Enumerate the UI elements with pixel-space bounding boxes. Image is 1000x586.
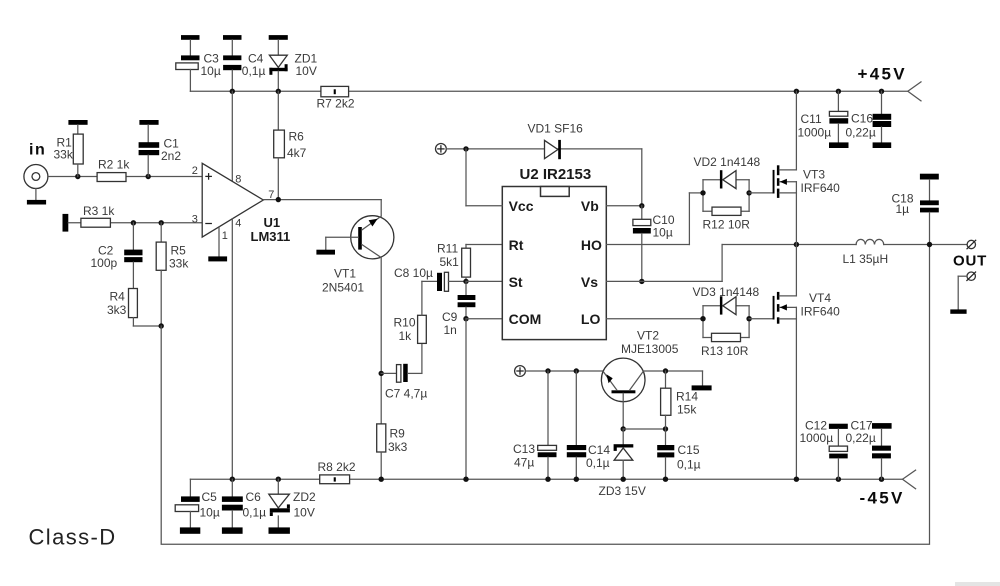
wire +10V/+45V top bus (190, 90, 907, 92)
svg-text:IRF640: IRF640 (801, 305, 841, 319)
wire VT4 gate lead (749, 318, 773, 320)
input jack IN (24, 165, 48, 205)
svg-text:VT3: VT3 (803, 168, 825, 182)
svg-text:5k1: 5k1 (440, 255, 460, 269)
svg-text:C15: C15 (678, 443, 700, 457)
wire op-amp pin 4 down (231, 219, 233, 480)
capacitor C9 1n (442, 281, 475, 337)
svg-text:Class-D: Class-D (29, 525, 117, 550)
node VT3 drain on +45V rail (794, 89, 799, 94)
svg-text:3: 3 (192, 213, 198, 225)
wire VT3 gate lead (749, 192, 773, 194)
svg-text:VD2 1n4148: VD2 1n4148 (694, 155, 761, 169)
pin label Vcc (509, 198, 534, 214)
wire Vs pin to switch node (606, 245, 722, 282)
svg-text:R3 1k: R3 1k (83, 204, 115, 218)
node C1 junction (146, 174, 151, 179)
node C18-OUT junction (927, 242, 932, 247)
node C17 on -45V rail (879, 477, 884, 482)
wire COM pin (466, 318, 502, 320)
wire V+ to VT2 emitter (525, 370, 603, 372)
pin number 1 (222, 230, 228, 242)
wire Vcc riser (466, 149, 502, 206)
svg-text:0,1µ: 0,1µ (242, 64, 266, 78)
wire op-amp output pin 7 (263, 200, 381, 216)
svg-text:R13 10R: R13 10R (701, 344, 749, 358)
diode VD1 SF16 (528, 122, 584, 160)
svg-text:10µ: 10µ (200, 506, 220, 520)
svg-text:C11: C11 (801, 112, 822, 126)
wire HO pin (606, 193, 703, 245)
ground at OUT return (950, 309, 966, 313)
node R1 junction (75, 174, 80, 179)
node ZD2 on -45V rail (276, 477, 281, 482)
node COM line on -45V rail (463, 477, 468, 482)
capacitor C17 0,22µ (846, 419, 892, 480)
wire -45V bottom rail (190, 478, 902, 480)
transistor VT3 IRF640 (773, 91, 841, 244)
node C11 on +45V rail (836, 89, 841, 94)
svg-text:10µ: 10µ (201, 64, 221, 78)
terminal V+ low side (515, 366, 526, 377)
pin number 8 (235, 174, 241, 186)
resistor R10 1k (394, 281, 438, 343)
svg-text:10V: 10V (296, 64, 317, 78)
svg-text:10V: 10V (294, 506, 315, 520)
wire switch node to L1 (722, 244, 856, 246)
node VD2 right junction (746, 190, 751, 195)
svg-text:10µ: 10µ (653, 226, 673, 240)
node R14 bottom junction (663, 426, 668, 431)
node C13 on -45V rail (545, 477, 550, 482)
node Vcc riser junction (463, 146, 468, 151)
capacitor C4 (223, 35, 265, 91)
svg-text:ZD2: ZD2 (293, 490, 316, 504)
svg-text:4: 4 (235, 218, 241, 230)
svg-text:33k: 33k (169, 257, 189, 271)
wire VT1 collector down (380, 257, 382, 424)
node C2 junction (131, 220, 136, 225)
ground at VT1 base (316, 250, 335, 255)
svg-text:C7 4,7µ: C7 4,7µ (385, 387, 427, 401)
svg-text:R7 2k2: R7 2k2 (317, 97, 355, 111)
svg-text:ZD3 15V: ZD3 15V (599, 484, 646, 498)
svg-text:VD3 1n4148: VD3 1n4148 (693, 285, 760, 299)
node VD3 left junction (700, 316, 705, 321)
svg-text:C13: C13 (513, 442, 535, 456)
svg-text:1µ: 1µ (896, 202, 910, 216)
node R4-R5 feedback junction (159, 323, 164, 328)
capacitor C7 4,7µ (381, 343, 427, 400)
svg-text:IRF640: IRF640 (801, 181, 841, 195)
resistor R3 1k (81, 204, 115, 227)
svg-text:0,1µ: 0,1µ (243, 506, 267, 520)
node C14 on -45V rail (574, 477, 579, 482)
op-amp U1 LM311 triangle (202, 163, 263, 237)
svg-text:R5: R5 (171, 244, 187, 258)
svg-text:R14: R14 (676, 390, 698, 404)
node R6-output junction (276, 197, 281, 202)
svg-text:8: 8 (235, 174, 241, 186)
pin label Vb (581, 198, 599, 214)
inductor L1 35µH (843, 239, 889, 266)
resistor R12 10R (703, 207, 751, 231)
svg-text:R4: R4 (110, 290, 126, 304)
node R9 on -45V rail (379, 477, 384, 482)
node C13 junction (545, 368, 550, 373)
resistor R14 15k (661, 371, 699, 429)
scan artifact bar bottom right (955, 582, 1000, 586)
terminal V+ supply (436, 144, 447, 155)
capacitor C6 0,1µ (222, 479, 266, 534)
svg-text:3k3: 3k3 (388, 440, 408, 454)
wire COM to negative rail (465, 319, 467, 480)
svg-text:LM311: LM311 (251, 229, 291, 244)
svg-text:VT2: VT2 (637, 329, 659, 343)
svg-text:COM: COM (509, 311, 542, 327)
pin label LO (581, 311, 601, 327)
resistor R1 33k (54, 120, 88, 177)
svg-text:1k: 1k (399, 329, 413, 343)
svg-text:0,22µ: 0,22µ (846, 125, 876, 139)
svg-text:VT4: VT4 (809, 291, 831, 305)
resistor R6 4k7 (274, 91, 307, 199)
svg-text:U1: U1 (264, 215, 281, 230)
label OUT (953, 253, 987, 270)
node C15 on -45V rail (663, 477, 668, 482)
IC U2 IR2153 body (502, 187, 606, 340)
wire L1 to OUT terminal (884, 244, 967, 246)
node -45V rail connector (903, 470, 916, 489)
svg-text:2: 2 (192, 165, 198, 177)
capacitor C13 47µ (513, 371, 557, 479)
pin number 4 (235, 218, 241, 230)
node R14 top junction (663, 368, 668, 373)
plus input mark (206, 174, 211, 179)
diode VD2 1n4148 (694, 155, 761, 189)
svg-text:R10: R10 (394, 316, 416, 330)
svg-text:15k: 15k (677, 403, 697, 417)
node R5 junction (159, 220, 164, 225)
svg-text:C16: C16 (851, 112, 873, 126)
capacitor C18 1µ (892, 174, 939, 245)
svg-text:Rt: Rt (509, 237, 524, 253)
label +45V (858, 65, 907, 84)
resistor R13 10R (701, 333, 749, 358)
svg-text:0,1µ: 0,1µ (586, 456, 610, 470)
node +45V rail connector (908, 82, 921, 101)
svg-text:33k: 33k (54, 148, 74, 162)
capacitor C11 1000µ (798, 91, 849, 148)
pin label St (509, 274, 523, 290)
label in (29, 142, 46, 159)
node C14 junction (574, 368, 579, 373)
wire inverting input (pin 3) (68, 222, 202, 224)
zener diode ZD3 15V (599, 429, 646, 498)
pin number 7 (268, 189, 274, 201)
wire LO pin (606, 318, 703, 320)
svg-text:R2 1k: R2 1k (98, 158, 130, 172)
ground terminal bar at R3 (63, 214, 69, 232)
minus input mark (206, 223, 211, 225)
svg-text:C5: C5 (202, 490, 218, 504)
svg-text:3k3: 3k3 (107, 303, 127, 317)
svg-text:St: St (509, 274, 523, 290)
wire VD3-R13 parallel loop (703, 306, 749, 338)
label U2 IR2153 (520, 166, 592, 183)
wire non-inverting input (pin 2) (48, 176, 202, 178)
label U1 LM311 (251, 215, 291, 244)
svg-text:100p: 100p (91, 256, 118, 270)
svg-text:in: in (29, 142, 46, 159)
svg-text:0,22µ: 0,22µ (846, 431, 876, 445)
svg-text:R12 10R: R12 10R (703, 218, 751, 232)
pin 1 ground (208, 227, 227, 262)
svg-text:1000µ: 1000µ (800, 431, 834, 445)
zener diode ZD2 10V (269, 479, 316, 534)
transistor VT1 2N5401 (322, 216, 394, 295)
node VT4 source on -45V rail (794, 477, 799, 482)
wire VT2 base down (622, 393, 624, 429)
zener diode ZD1 (269, 35, 318, 91)
svg-text:2n2: 2n2 (161, 149, 181, 163)
wire base node to R14 bottom (623, 428, 665, 430)
svg-text:LO: LO (581, 311, 601, 327)
wire feedback loop bottom (161, 245, 929, 545)
svg-text:VD1 SF16: VD1 SF16 (528, 122, 584, 136)
svg-text:R8 2k2: R8 2k2 (318, 460, 356, 474)
wire VD2-R12 parallel loop (703, 180, 749, 212)
svg-text:Vcc: Vcc (509, 198, 534, 214)
node St junction (463, 279, 468, 284)
capacitor C14 0,1µ (567, 371, 611, 479)
node C4-bus junction (230, 89, 235, 94)
node ZD3 on -45V rail (621, 477, 626, 482)
node C12 on -45V rail (836, 477, 841, 482)
capacitor C12 1000µ (800, 419, 848, 480)
resistor R8 2k2 (318, 460, 356, 484)
node VT2 base-ZD3 junction (621, 426, 626, 431)
svg-text:L1 35µH: L1 35µH (843, 252, 889, 266)
node ZD1-bus junction (276, 89, 281, 94)
pin number 2 (192, 165, 198, 177)
svg-text:47µ: 47µ (514, 456, 534, 470)
node Vs-C10 junction (639, 279, 644, 284)
pin label HO (581, 237, 602, 253)
svg-text:VT1: VT1 (334, 267, 356, 281)
node C16 on +45V rail (879, 89, 884, 94)
resistor R7 2k2 (317, 86, 355, 110)
resistor R5 33k (156, 223, 189, 326)
capacitor C1 2n2 (139, 120, 182, 177)
resistor R9 3k3 (377, 424, 408, 479)
pin number 3 (192, 213, 198, 225)
svg-text:R11: R11 (437, 242, 458, 256)
svg-text:MJE13005: MJE13005 (621, 342, 679, 356)
svg-text:C9: C9 (442, 310, 458, 324)
wire St pin (466, 280, 502, 282)
capacitor C8 10µ (394, 266, 466, 291)
capacitor C3 (176, 35, 221, 91)
svg-text:R6: R6 (289, 130, 305, 144)
svg-text:U2 IR2153: U2 IR2153 (520, 166, 592, 183)
capacitor C15 0,1µ (657, 429, 700, 479)
wire VT1 base to ground (326, 237, 358, 249)
terminal OUT hot (967, 240, 976, 249)
diode VD3 1n4148 (693, 285, 760, 315)
resistor R2 1k (97, 158, 130, 182)
svg-text:OUT: OUT (953, 253, 987, 270)
svg-text:+45V: +45V (858, 65, 907, 84)
node VT3 source / VT4 drain on switch node (794, 242, 799, 247)
node C7 junction (379, 371, 384, 376)
wire V+ to VD1 to Vb column (446, 148, 642, 150)
transistor VT2 MJE13005 (601, 329, 678, 402)
wire VT2 collector to ground (643, 371, 703, 385)
svg-text:1n: 1n (444, 323, 457, 337)
label Class-D (29, 525, 117, 550)
capacitor C16 0,22µ (846, 91, 892, 148)
transistor VT4 IRF640 (773, 245, 841, 480)
capacitor C5 10µ (175, 479, 220, 534)
node Vb junction (639, 203, 644, 208)
resistor R11 5k1 (437, 242, 502, 282)
svg-text:1: 1 (222, 230, 228, 242)
node C6/pin4 on -45V rail (230, 477, 235, 482)
svg-text:-45V: -45V (860, 489, 905, 508)
node VD3 right junction (746, 316, 751, 321)
capacitor C10 10µ (633, 206, 675, 282)
node COM junction (463, 316, 468, 321)
pin label Vs (581, 274, 598, 290)
pin label Rt (509, 237, 524, 253)
node VD2 left junction (700, 190, 705, 195)
svg-text:1000µ: 1000µ (798, 125, 832, 139)
svg-text:R9: R9 (390, 427, 406, 441)
svg-text:HO: HO (581, 237, 602, 253)
svg-text:C6: C6 (246, 490, 262, 504)
capacitor C2 100p (91, 223, 143, 289)
wire Vb riser (606, 149, 642, 206)
ground at VT2 collector (692, 385, 712, 390)
wire op-amp pin 8 to bus (231, 91, 233, 181)
svg-text:Vb: Vb (581, 198, 599, 214)
terminal OUT return (958, 272, 975, 309)
svg-text:4k7: 4k7 (287, 146, 307, 160)
svg-text:Vs: Vs (581, 274, 598, 290)
svg-text:0,1µ: 0,1µ (677, 458, 701, 472)
svg-text:2N5401: 2N5401 (322, 281, 364, 295)
svg-text:C14: C14 (588, 443, 610, 457)
svg-text:C8 10µ: C8 10µ (394, 266, 433, 280)
pin label COM (509, 311, 542, 327)
resistor R4 3k3 (107, 289, 161, 327)
label -45V (860, 489, 905, 508)
